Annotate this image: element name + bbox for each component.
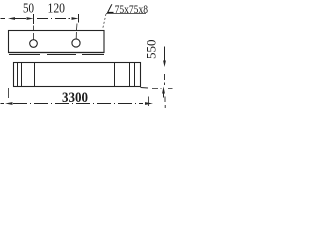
svg-text:3300: 3300 (62, 90, 88, 106)
arrow right tip x78 (dim 120) (72, 17, 79, 20)
beam end stiffener line left b (21, 63, 23, 87)
top dimension line (dash-dot) (1, 18, 71, 20)
plate bottom edge overdraw (9, 52, 105, 54)
beam segment line right (114, 63, 116, 87)
beam bottom extension dash-dot at y88.5 (152, 88, 173, 90)
svg-text:550: 550 (145, 40, 159, 60)
leader underline of L75x75x8 (106, 13, 146, 15)
550 lower arrow tail (163, 92, 165, 98)
3300 extension line left (8, 88, 10, 98)
3300 extension line right (148, 97, 150, 107)
plate outline (top view) (9, 31, 105, 53)
svg-text:120: 120 (48, 2, 66, 17)
leader diagonal to plate corner (103, 14, 107, 30)
arrow left tip x8 (dim 50) (8, 17, 15, 20)
beam end stiffener line right a (129, 63, 131, 87)
beam end stiffener line left a (17, 63, 19, 87)
550 dimension line upper part (164, 47, 166, 62)
3300 dimension line (dash-dot) (1, 103, 144, 105)
hole 1 centerline (33, 26, 35, 40)
3300 right arrow tip x153 (145, 102, 153, 105)
beam bottom edge extension right (141, 87, 149, 90)
hole 2 centerline (75, 24, 78, 39)
beam outline (elevation) (14, 63, 141, 87)
extension tick at x78 (78, 14, 80, 23)
550 line dashes below (164, 97, 166, 109)
550 upper arrow pointing down tip y66 (163, 61, 166, 68)
plate bottom dash-dot line (9, 54, 104, 56)
3300 left arrow tip x5 (5, 102, 13, 105)
beam segment line left (34, 63, 36, 87)
hole 2 (72, 39, 80, 47)
550 dimension line dashes middle (164, 74, 166, 85)
arrow right tip x33.5 (dim 50/120) (27, 17, 34, 20)
550 lower arrow pointing up tip y86.5 (162, 87, 165, 94)
extension tick at x33.5 (33, 14, 35, 24)
svg-text:50: 50 (23, 2, 34, 17)
beam end stiffener line right b (134, 63, 136, 87)
hole 1 (30, 40, 38, 48)
